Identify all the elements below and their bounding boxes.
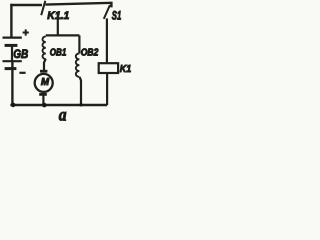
svg-text:GB: GB (13, 49, 28, 61)
wire motor to bottom (42, 96, 44, 106)
wire OB1 to motor (44, 59, 46, 70)
node motor-bottom junction (42, 103, 47, 108)
wire left rail upper (10, 4, 12, 38)
node battery-bottom junction (11, 103, 16, 108)
wire top-right segment (45, 3, 111, 8)
motor M1 brush top (40, 70, 47, 73)
svg-text:OB1: OB1 (50, 47, 67, 58)
wire feed vertical (57, 14, 59, 36)
battery GB plate2 short (5, 67, 17, 70)
battery GB plate1 short (5, 44, 18, 47)
motor M1 body (35, 74, 53, 92)
wire OB2 to bottom (80, 77, 81, 105)
relay coil K1 (99, 63, 118, 73)
wire right rail upper (106, 18, 108, 63)
contact K1.1 blade (41, 1, 45, 15)
battery GB minus sign (19, 72, 25, 74)
motor M1 brush bottom (39, 93, 47, 96)
wire left rail lower (11, 61, 13, 105)
battery GB plus sign (23, 29, 29, 35)
inductor OB2 (76, 53, 80, 77)
wire top-left segment (10, 4, 42, 6)
svg-text:M: M (41, 77, 50, 88)
wire bar (46, 34, 80, 36)
battery GB inter-cell lead (11, 45, 13, 61)
svg-text:OB2: OB2 (81, 48, 99, 59)
svg-text:а: а (59, 105, 67, 124)
wire bottom rail (10, 104, 107, 106)
svg-text:K1: K1 (120, 63, 132, 75)
inductor OB2 lead (78, 35, 80, 53)
node OB2-bottom junction (79, 103, 82, 106)
switch S1 blade (104, 5, 110, 19)
svg-text:S1: S1 (112, 10, 122, 22)
battery GB plate1 long (3, 36, 22, 38)
wire right rail lower (106, 73, 108, 105)
inductor OB1 (42, 36, 45, 59)
battery GB plate2 long (3, 60, 22, 62)
